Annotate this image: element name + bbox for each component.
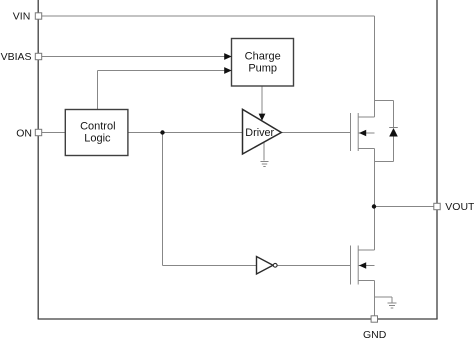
pin VBIAS: [35, 53, 41, 59]
pin VOUT: [434, 203, 440, 209]
wire branch to chassis ground: [375, 296, 393, 298]
wire VOUT node to pin: [375, 206, 438, 208]
svg-text:VIN: VIN: [13, 11, 31, 23]
wire VIN vertical to pass FET drain: [374, 16, 376, 117]
wire control logic up: [97, 71, 99, 110]
wire to inverter input: [163, 265, 257, 267]
inverter U4: [257, 257, 274, 275]
arrowhead charge pump into driver: [259, 114, 266, 121]
wire inverter to pulldown FET gate: [277, 265, 351, 267]
pulldown transistor Q2: [351, 246, 375, 285]
chassis ground bottom: [388, 303, 397, 308]
svg-text:VOUT: VOUT: [445, 201, 474, 213]
svg-text:Logic: Logic: [84, 132, 111, 144]
wire VBIAS to charge pump: [39, 56, 226, 58]
svg-text:Control: Control: [80, 120, 115, 132]
wire ON to control logic: [38, 132, 65, 134]
arrowhead into charge pump from VBIAS: [224, 53, 232, 60]
svg-text:Charge: Charge: [245, 51, 281, 63]
IC boundary left border: [37, 0, 39, 319]
wire control logic to charge pump: [98, 70, 226, 72]
svg-text:ON: ON: [16, 128, 32, 140]
svg-text:GND: GND: [363, 329, 387, 338]
wire charge pump to driver: [261, 86, 263, 118]
ground below driver: [261, 162, 269, 167]
wire VIN rail: [39, 15, 375, 17]
IC boundary right border: [436, 0, 438, 319]
node VOUT junction dot: [372, 204, 376, 208]
pass transistor Q1: [351, 113, 375, 151]
driver amp U3: [243, 109, 282, 154]
arrowhead into charge pump from control logic: [224, 67, 232, 74]
wire driver to pass FET gate: [281, 132, 351, 134]
pin GND: [371, 316, 377, 322]
wire node vertical down to inverter branch: [162, 133, 164, 266]
svg-text:Pump: Pump: [248, 63, 277, 75]
charge pump U2: [232, 39, 294, 87]
node A junction dot: [160, 130, 164, 134]
svg-text:Driver: Driver: [245, 127, 274, 139]
wire driver to ground: [263, 142, 265, 161]
wire pulldown FET source to GND pin: [374, 281, 376, 320]
wire control logic to driver: [128, 132, 243, 134]
body diode D1: [375, 101, 394, 162]
wire pass FET source to VOUT node: [374, 149, 376, 207]
pin VIN: [35, 13, 41, 19]
pin ON: [35, 129, 41, 135]
wire VOUT node down to pulldown FET drain: [374, 207, 376, 251]
svg-text:VBIAS: VBIAS: [1, 51, 32, 63]
control logic U1: [65, 110, 128, 156]
IC boundary bottom border: [38, 318, 438, 320]
